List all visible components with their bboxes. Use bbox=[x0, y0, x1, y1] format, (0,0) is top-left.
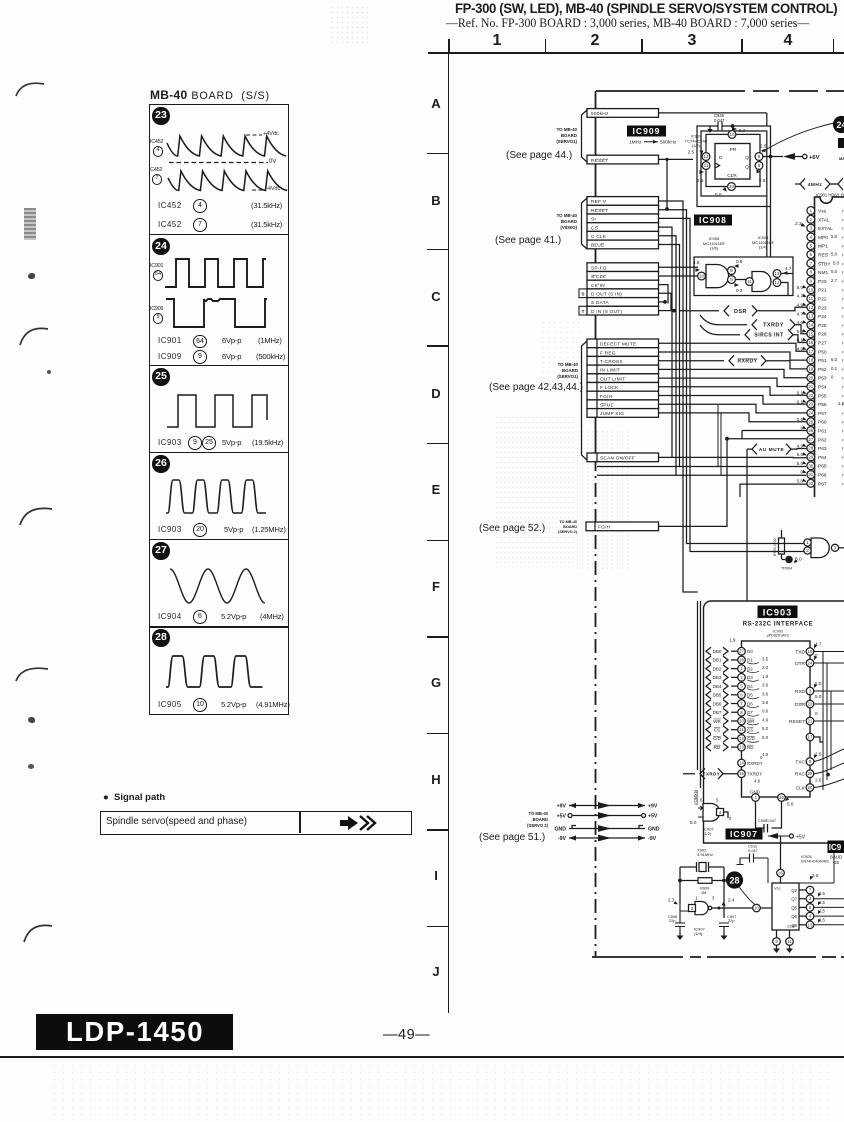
svg-text:4.9: 4.9 bbox=[762, 752, 769, 757]
FF pin 12 bbox=[702, 153, 710, 161]
svg-text:Q2: Q2 bbox=[791, 888, 797, 893]
svg-text:+9V: +9V bbox=[557, 804, 567, 810]
svg-text:10: 10 bbox=[754, 906, 759, 911]
IC901 pin 27 P62 bbox=[807, 435, 815, 443]
svg-text:AU MUTE: AU MUTE bbox=[759, 447, 785, 453]
svg-text:20: 20 bbox=[808, 785, 813, 790]
panel divider bbox=[149, 626, 288, 628]
svg-text:0.1: 0.1 bbox=[831, 366, 838, 371]
input box D OUT (S IN) bbox=[587, 289, 659, 298]
trace label IC909 pin9 bbox=[150, 306, 163, 312]
svg-text:2.5: 2.5 bbox=[760, 144, 767, 149]
svg-text:P57: P57 bbox=[818, 411, 827, 417]
svg-text:5.0: 5.0 bbox=[797, 479, 804, 484]
svg-text:+5V: +5V bbox=[648, 814, 658, 820]
svg-text:11: 11 bbox=[704, 163, 709, 168]
binder arc bbox=[16, 83, 44, 96]
svg-text:CS: CS bbox=[747, 727, 753, 732]
svg-text:D IN (S OUT): D IN (S OUT) bbox=[591, 309, 622, 315]
IC903 pin 10 WR bbox=[706, 717, 711, 725]
svg-text:24: 24 bbox=[808, 410, 813, 415]
bus wire v3 bbox=[659, 218, 806, 551]
svg-text:25: 25 bbox=[808, 419, 813, 424]
cut label right edge bbox=[838, 138, 844, 148]
right hooks bbox=[814, 749, 844, 788]
bus wire v6 bbox=[659, 245, 807, 467]
counter pin 8 bbox=[773, 938, 781, 946]
IC901 pin 24 P57 bbox=[807, 409, 815, 417]
svg-text:BLUE: BLUE bbox=[591, 243, 604, 249]
gate c input pin 2 bbox=[804, 547, 811, 554]
svg-text:(1/2): (1/2) bbox=[703, 831, 712, 836]
schematic left border dashed bbox=[595, 457, 597, 957]
svg-text:(See page 44.): (See page 44.) bbox=[506, 150, 572, 161]
svg-text:DB0: DB0 bbox=[713, 649, 722, 654]
row letter E bbox=[428, 482, 444, 497]
svg-text:+5V: +5V bbox=[796, 835, 806, 841]
svg-text:2.5: 2.5 bbox=[819, 891, 825, 896]
column number 2 bbox=[587, 32, 603, 50]
svg-text:+5V: +5V bbox=[557, 814, 567, 820]
svg-text:0.047: 0.047 bbox=[767, 819, 777, 823]
svg-text:29: 29 bbox=[808, 454, 813, 459]
svg-text:D0: D0 bbox=[747, 649, 753, 654]
IC901 pin 13 P24 bbox=[807, 312, 815, 320]
signal wire staircase bbox=[659, 343, 807, 351]
svg-text:IC907: IC907 bbox=[730, 829, 758, 839]
svg-text:Q5: Q5 bbox=[791, 905, 797, 910]
svg-text:(SERVO1): (SERVO1) bbox=[557, 374, 578, 379]
wire 500kHz drop bbox=[767, 113, 771, 257]
svg-text:GND: GND bbox=[554, 827, 566, 833]
wire D OUT bbox=[659, 293, 672, 311]
FF outer loop with C926 gap bbox=[697, 126, 771, 207]
row tick bbox=[427, 249, 448, 251]
wire c911 bbox=[767, 858, 769, 883]
svg-text:P51: P51 bbox=[818, 358, 827, 364]
input box T-CROSS bbox=[587, 356, 659, 365]
ink dot bbox=[47, 370, 51, 374]
schematic bottom border bbox=[592, 956, 844, 958]
svg-text:22p: 22p bbox=[669, 918, 676, 923]
scope trace 24 lower square bbox=[166, 299, 267, 327]
svg-text:D1: D1 bbox=[747, 658, 753, 663]
IC901 pin 4 MP0 bbox=[807, 233, 815, 241]
svg-text:P52: P52 bbox=[818, 367, 827, 373]
scope trace 27 sine bbox=[170, 569, 265, 603]
svg-text:WR: WR bbox=[713, 719, 721, 724]
row tick bbox=[427, 636, 448, 638]
svg-text:2.3: 2.3 bbox=[668, 898, 675, 903]
wire T-CROSS to RXRDY tag bbox=[659, 360, 725, 362]
IC901 pin 8 NM1 bbox=[807, 268, 815, 276]
svg-text:MA: MA bbox=[839, 156, 844, 161]
scope badge 24 bbox=[833, 116, 844, 133]
svg-text:(1/2): (1/2) bbox=[692, 143, 701, 148]
svg-text:11: 11 bbox=[809, 296, 814, 301]
svg-text:P56: P56 bbox=[818, 402, 827, 408]
svg-text:5.0: 5.0 bbox=[797, 461, 804, 466]
svg-text:1M: 1M bbox=[701, 890, 706, 895]
svg-text:DB7: DB7 bbox=[713, 710, 722, 715]
input box D IN (S OUT) bbox=[587, 306, 659, 315]
IC903 pin 6 D5 bbox=[706, 691, 711, 699]
column tick bbox=[833, 39, 835, 53]
svg-text:14: 14 bbox=[808, 322, 813, 327]
input box IN LIMIT bbox=[587, 365, 659, 374]
input box FG/H bbox=[587, 391, 659, 400]
svg-text:10: 10 bbox=[730, 132, 735, 137]
bus wire v4 bbox=[659, 227, 673, 457]
svg-text:DSR: DSR bbox=[795, 702, 806, 708]
bus wire v5 bbox=[659, 236, 807, 475]
wire P66 bbox=[597, 474, 676, 476]
FF pin 10 bbox=[728, 131, 736, 139]
trace label IC452 pin7 bbox=[149, 167, 162, 173]
wire FG/H up bbox=[659, 439, 728, 527]
counter pin 11 bbox=[786, 938, 794, 946]
row letter C bbox=[428, 289, 444, 304]
svg-text:DB6: DB6 bbox=[713, 701, 722, 706]
row tick bbox=[427, 345, 448, 347]
flip-flop U-IC909 body bbox=[715, 144, 750, 180]
waveform number badge 27 bbox=[152, 542, 169, 559]
IC903 pin 12 C/D bbox=[706, 735, 711, 743]
wire fgh gate bbox=[659, 525, 661, 527]
input box DEFECT MUTE bbox=[587, 339, 659, 348]
gate c input pin 1 bbox=[804, 539, 811, 546]
svg-text:15: 15 bbox=[808, 331, 813, 336]
IC903 pin 1 D2 bbox=[706, 665, 711, 673]
svg-text:28: 28 bbox=[729, 876, 739, 886]
IC903 chip body bbox=[742, 641, 811, 797]
IC903 pin 8 D7 bbox=[706, 708, 711, 716]
svg-text:DSR: DSR bbox=[734, 309, 747, 315]
gate a output pin 9 bbox=[728, 276, 736, 284]
svg-text:(SERVO1): (SERVO1) bbox=[556, 139, 577, 144]
svg-text:+9V: +9V bbox=[648, 804, 658, 810]
input box FG/H bbox=[586, 522, 659, 531]
AND gate U907a bbox=[703, 804, 720, 822]
svg-text:1.8: 1.8 bbox=[762, 674, 769, 679]
svg-text:16: 16 bbox=[778, 871, 783, 876]
svg-text:6: 6 bbox=[700, 798, 703, 803]
signal wire staircase bbox=[659, 369, 807, 377]
IC903 pin 3 RXD bbox=[806, 687, 814, 695]
wire SCAN ON/OFF bbox=[659, 456, 807, 458]
FF value 5.0 pin10 bbox=[733, 127, 738, 131]
svg-text:5.0: 5.0 bbox=[797, 285, 804, 290]
svg-text:5.0: 5.0 bbox=[739, 128, 746, 133]
IC903 pin 9 TXC bbox=[806, 758, 814, 766]
row letter B bbox=[428, 193, 444, 208]
IC903 pin 2 D3 bbox=[706, 673, 711, 681]
IC903 pin 24 DTR bbox=[806, 659, 814, 667]
wire P62 junction bbox=[725, 437, 729, 441]
svg-text:0: 0 bbox=[815, 711, 818, 716]
svg-text:R903 4700: R903 4700 bbox=[773, 538, 777, 556]
svg-text:BOARD: BOARD bbox=[563, 525, 577, 529]
svg-text:5.0: 5.0 bbox=[831, 269, 838, 274]
svg-text:(VIDEO): (VIDEO) bbox=[560, 225, 577, 230]
svg-text:2.5: 2.5 bbox=[819, 909, 825, 914]
counter IC905 body bbox=[772, 883, 799, 930]
noise patch bbox=[495, 415, 575, 565]
net tag SIRCS INT bbox=[745, 329, 750, 340]
input box CK IN bbox=[587, 280, 659, 289]
IC901 pin 1 Vss bbox=[807, 207, 815, 215]
svg-text:BOARD: BOARD bbox=[561, 133, 577, 138]
IC903 pin 7 D6 bbox=[706, 700, 711, 708]
input box SPUL bbox=[587, 400, 659, 409]
svg-text:5: 5 bbox=[716, 798, 719, 803]
row tick bbox=[427, 540, 448, 542]
caption IC903 9 25 5Vp-p 19.5kHz bbox=[158, 438, 182, 447]
noise patch bbox=[575, 430, 630, 570]
svg-text:RXRDY: RXRDY bbox=[693, 790, 698, 805]
input box F LOCK bbox=[587, 383, 659, 392]
svg-text:RXD: RXD bbox=[795, 689, 806, 695]
schematic top border bbox=[596, 90, 844, 92]
row letter J bbox=[428, 964, 444, 979]
level label +4Vdc bbox=[263, 131, 279, 137]
net tag TXRDY bbox=[752, 319, 757, 330]
svg-text:2.7: 2.7 bbox=[831, 278, 838, 283]
svg-text:RS-232C INTERFACE: RS-232C INTERFACE bbox=[743, 622, 814, 628]
caption IC905 10 5.2Vp-p 4.91MHz bbox=[158, 700, 182, 709]
input box OUT LIMIT bbox=[587, 374, 659, 383]
test point TP904 bbox=[785, 556, 793, 564]
input box S CLK bbox=[587, 272, 659, 281]
svg-text:RD: RD bbox=[747, 745, 754, 750]
row letter F bbox=[428, 579, 444, 594]
ink dot bbox=[28, 273, 35, 279]
column number 4 bbox=[780, 32, 796, 50]
gate a output pin 8 bbox=[728, 267, 736, 275]
level dash 0V bbox=[169, 162, 268, 164]
svg-text:D3: D3 bbox=[747, 675, 753, 680]
input box 500kHz bbox=[587, 109, 659, 118]
svg-text:0.1: 0.1 bbox=[797, 338, 804, 343]
svg-text:12: 12 bbox=[739, 736, 744, 741]
IC907 label bbox=[726, 829, 763, 840]
svg-text:0: 0 bbox=[831, 375, 834, 380]
bus wire inner2 bbox=[700, 601, 702, 788]
svg-text:F LOCK: F LOCK bbox=[600, 385, 619, 391]
svg-text:P61: P61 bbox=[818, 429, 827, 435]
svg-text:5.0: 5.0 bbox=[833, 260, 840, 265]
svg-text:IN LIMIT: IN LIMIT bbox=[600, 368, 620, 374]
scope trace 23 lower sawtooth bbox=[168, 171, 287, 191]
bottom rule bbox=[0, 1056, 844, 1058]
svg-text:TO MB-40: TO MB-40 bbox=[558, 362, 579, 367]
svg-text:16: 16 bbox=[808, 340, 813, 345]
signal path arrow symbol bbox=[340, 815, 380, 831]
ink dot bbox=[28, 717, 35, 723]
svg-text:31: 31 bbox=[808, 472, 813, 477]
svg-text:T-CROSS: T-CROSS bbox=[600, 359, 623, 365]
FF clock wedge bbox=[715, 163, 720, 168]
IC9 cut label bbox=[828, 841, 844, 854]
svg-text:RES: RES bbox=[818, 253, 828, 259]
signal path legend text bbox=[106, 816, 247, 827]
noise patch bbox=[540, 320, 580, 390]
wire out to CLK bbox=[712, 907, 753, 909]
svg-text:3: 3 bbox=[712, 896, 715, 901]
svg-text:P54: P54 bbox=[818, 385, 827, 391]
svg-text:RXC: RXC bbox=[795, 772, 806, 778]
IC901 pin 22 P55 bbox=[807, 391, 815, 399]
svg-text:P65: P65 bbox=[818, 464, 827, 470]
svg-text:D: D bbox=[719, 155, 723, 161]
column number 1 bbox=[489, 32, 505, 50]
svg-text:11: 11 bbox=[787, 939, 792, 944]
svg-text:19: 19 bbox=[808, 366, 813, 371]
svg-text:28: 28 bbox=[808, 446, 813, 451]
svg-text:MP0: MP0 bbox=[818, 235, 828, 241]
waveform number badge 28 bbox=[152, 629, 169, 646]
svg-text:RESET: RESET bbox=[591, 208, 608, 214]
svg-text:P24: P24 bbox=[818, 314, 827, 320]
gate a input pin 10 bbox=[698, 272, 706, 280]
IC901 pin 31 P66 bbox=[807, 471, 815, 479]
resistor R909 bbox=[680, 880, 724, 882]
svg-text:10: 10 bbox=[808, 287, 813, 292]
waveform number badge 25 bbox=[152, 368, 169, 385]
svg-text:18: 18 bbox=[808, 358, 813, 363]
svg-text:P22: P22 bbox=[818, 297, 827, 303]
svg-text:DB2: DB2 bbox=[713, 666, 722, 671]
row letter G bbox=[428, 675, 444, 690]
row rail line bbox=[448, 52, 450, 1013]
IC901 pin 6 RES bbox=[807, 251, 815, 259]
bus wire v1 bbox=[659, 201, 698, 592]
svg-text:2.5: 2.5 bbox=[759, 178, 766, 183]
svg-text:TXRDY: TXRDY bbox=[747, 772, 762, 777]
binder arc bbox=[16, 668, 48, 681]
IC909 label bbox=[627, 126, 666, 137]
svg-text:500kHz: 500kHz bbox=[660, 140, 677, 146]
svg-text:14: 14 bbox=[739, 761, 744, 766]
binder arc bbox=[20, 328, 48, 345]
svg-text:BOARD: BOARD bbox=[562, 368, 578, 373]
vertical net RXRDY bbox=[693, 790, 698, 805]
svg-text:JUMP SIG: JUMP SIG bbox=[600, 411, 624, 417]
NAND gate U907c bbox=[811, 538, 829, 558]
level label -4Vdc bbox=[266, 186, 280, 192]
svg-text:12: 12 bbox=[808, 305, 813, 310]
level dash +4Vdc bbox=[246, 134, 262, 136]
svg-text:11: 11 bbox=[739, 727, 744, 732]
svg-text:24: 24 bbox=[808, 661, 813, 666]
FF pin 8 bbox=[755, 162, 763, 170]
row tick bbox=[427, 733, 448, 735]
svg-text:RESET: RESET bbox=[591, 158, 608, 164]
svg-text:5.0: 5.0 bbox=[797, 452, 804, 457]
caption IC901 64 6Vp-p 1MHz bbox=[158, 336, 182, 345]
svg-text:STBY: STBY bbox=[818, 261, 831, 267]
svg-text:21: 21 bbox=[808, 719, 813, 724]
wire S DATA bbox=[659, 301, 666, 303]
svg-text:DB4: DB4 bbox=[713, 684, 722, 689]
svg-text:D OUT (S IN): D OUT (S IN) bbox=[591, 292, 622, 298]
svg-text:11: 11 bbox=[747, 279, 752, 284]
flip-flop inner loop bbox=[701, 131, 767, 196]
input box SCAN ON/OFF bbox=[587, 453, 659, 462]
svg-text:5.0: 5.0 bbox=[762, 726, 769, 731]
page subtitle bbox=[446, 16, 830, 31]
net tag 4MHz bbox=[800, 179, 805, 190]
gate out bbox=[724, 812, 729, 818]
svg-text:CS: CS bbox=[591, 225, 598, 231]
caption IC452 4 31.5kHz bbox=[158, 201, 182, 210]
svg-text:IC905: IC905 bbox=[801, 854, 812, 859]
waveform number badge 26 bbox=[152, 455, 169, 472]
IC901 pin 19 P52 bbox=[807, 365, 815, 373]
svg-text:12: 12 bbox=[775, 280, 780, 285]
input box C CLK bbox=[587, 231, 659, 240]
svg-text:S CLK: S CLK bbox=[591, 274, 606, 280]
svg-text:TXD: TXD bbox=[795, 650, 805, 656]
IC908 label bbox=[694, 215, 732, 226]
svg-text:DB1: DB1 bbox=[713, 658, 722, 663]
IC903 pin 26 bbox=[778, 794, 786, 802]
counter clock pin bbox=[753, 904, 761, 912]
svg-text:3.6: 3.6 bbox=[762, 683, 769, 688]
svg-text:P26: P26 bbox=[818, 332, 827, 338]
svg-text:C/D: C/D bbox=[747, 736, 756, 741]
svg-text:3.6: 3.6 bbox=[762, 691, 769, 696]
svg-text:32: 32 bbox=[808, 481, 813, 486]
IC901 pin 30 P65 bbox=[807, 462, 815, 470]
column ruler line bbox=[428, 52, 844, 54]
svg-text:3.5: 3.5 bbox=[762, 656, 769, 661]
column tick bbox=[545, 39, 547, 53]
IC903 pin 27 D0 bbox=[706, 647, 711, 655]
svg-text:OUT LIMIT: OUT LIMIT bbox=[600, 376, 625, 382]
svg-text:0.047: 0.047 bbox=[748, 848, 758, 853]
svg-text:13: 13 bbox=[775, 271, 780, 276]
svg-text:Q8: Q8 bbox=[791, 923, 797, 928]
row letter A bbox=[428, 96, 444, 111]
level dash -4Vdc bbox=[252, 189, 265, 191]
IC903 pin 17 bbox=[806, 733, 814, 741]
svg-text:IC908: IC908 bbox=[699, 215, 727, 225]
IC901 pin 26 P61 bbox=[807, 427, 815, 435]
schematic left border bbox=[595, 91, 597, 457]
IC901 pin 5 MP1 bbox=[807, 242, 815, 250]
signal wire staircase bbox=[659, 352, 807, 360]
svg-text:P60: P60 bbox=[818, 420, 827, 426]
svg-text:(1/4): (1/4) bbox=[759, 245, 768, 250]
svg-text:SIRCS INT: SIRCS INT bbox=[754, 333, 783, 339]
IC903 pin 13 RD bbox=[706, 743, 711, 751]
svg-text:(See page 52.): (See page 52.) bbox=[479, 523, 545, 534]
junction dot RXC bbox=[826, 773, 830, 777]
svg-text:19: 19 bbox=[808, 649, 813, 654]
wire RESET bbox=[659, 159, 694, 209]
svg-text:27: 27 bbox=[739, 649, 744, 654]
osc loop bbox=[680, 867, 724, 918]
IC901 pin 16 P27 bbox=[807, 339, 815, 347]
IC901 pin 29 P64 bbox=[807, 453, 815, 461]
bracket servo1 bbox=[582, 110, 588, 162]
column tick bbox=[448, 39, 450, 53]
svg-text:+6V: +6V bbox=[809, 155, 820, 161]
IC903 pin 28 D1 bbox=[706, 656, 711, 664]
IC901 pin 2 XTAL bbox=[807, 215, 815, 223]
NAND gate U908a bbox=[706, 265, 729, 288]
